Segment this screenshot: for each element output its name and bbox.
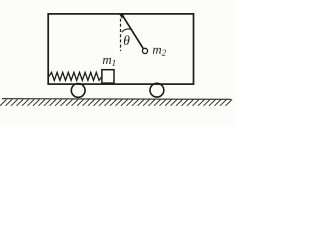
svg-text:θ: θ <box>123 33 130 48</box>
